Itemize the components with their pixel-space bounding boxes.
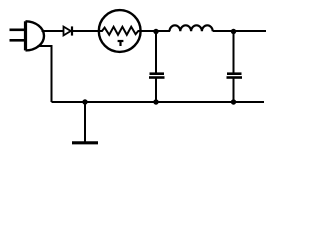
wire thermistor to inductor [141, 30, 171, 32]
capacitor C2 [227, 74, 243, 78]
node capacitor C2 bottom junction dot [231, 99, 236, 104]
thermistor RT1 resistor zigzag [99, 27, 142, 35]
wire plug to diode [42, 30, 64, 32]
wire junction to capacitor C1 [155, 32, 157, 74]
node capacitor C1 bottom junction dot [153, 99, 158, 104]
thermistor RT1 circle [99, 10, 141, 52]
wire inductor to top-right [213, 30, 266, 32]
node ground junction dot [82, 99, 87, 104]
wire capacitor C2 to bottom rail [233, 79, 235, 103]
wire capacitor C1 to bottom rail [155, 79, 157, 103]
diode D1 [64, 26, 73, 35]
wire plug lower lead [38, 46, 52, 102]
plug P1 [10, 21, 45, 50]
wire diode to thermistor [73, 30, 99, 32]
wire junction to capacitor C2 [233, 32, 235, 74]
ground [72, 102, 98, 143]
node top-right junction dot [231, 29, 236, 34]
thermistor RT1 label T [118, 41, 124, 46]
node top-left junction dot [153, 29, 158, 34]
inductor L1 [170, 25, 213, 31]
wire bottom rail [52, 101, 265, 103]
capacitor C1 [149, 74, 165, 78]
